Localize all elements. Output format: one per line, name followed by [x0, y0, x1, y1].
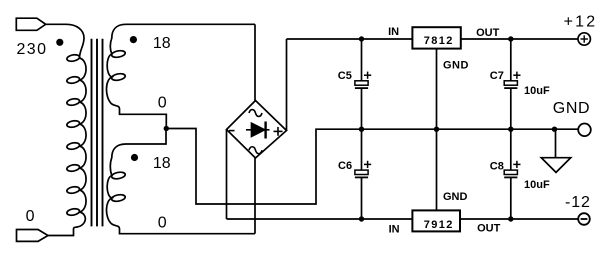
svg-text:IN: IN [388, 26, 399, 38]
svg-text:-12: -12 [565, 194, 591, 211]
svg-text:230: 230 [17, 41, 48, 58]
svg-text:GND: GND [553, 100, 590, 117]
svg-text:0: 0 [158, 95, 167, 112]
svg-text:10uF: 10uF [524, 179, 550, 191]
svg-text:GND: GND [443, 191, 468, 203]
svg-text:18: 18 [153, 35, 171, 52]
svg-text:+12: +12 [564, 13, 598, 30]
svg-text:C7: C7 [490, 70, 504, 82]
svg-text:18: 18 [153, 155, 171, 172]
svg-text:0: 0 [158, 215, 167, 232]
svg-text:OUT: OUT [476, 27, 500, 39]
svg-text:C6: C6 [338, 160, 352, 172]
svg-text:IN: IN [389, 224, 400, 236]
svg-text:7812: 7812 [424, 35, 454, 47]
svg-text:GND: GND [443, 60, 469, 72]
svg-text:C5: C5 [338, 70, 352, 82]
svg-text:0: 0 [26, 208, 35, 225]
svg-text:OUT: OUT [477, 223, 501, 235]
svg-text:7912: 7912 [424, 219, 454, 231]
svg-text:10uF: 10uF [524, 85, 550, 97]
svg-text:C8: C8 [490, 161, 504, 173]
